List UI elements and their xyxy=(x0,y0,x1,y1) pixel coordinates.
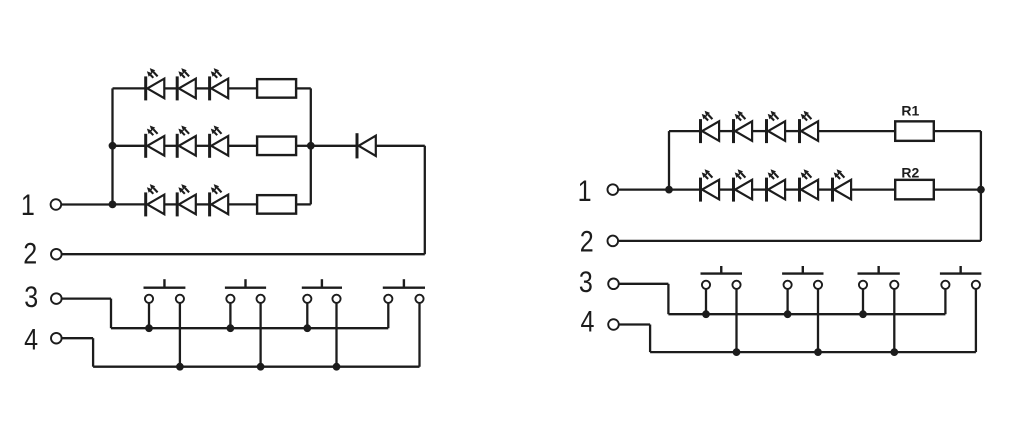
LED (right circuit, row 2, #3) xyxy=(767,169,786,201)
wire: right switch 2 right pin to lower bus xyxy=(817,289,819,352)
push-button switch S1 (right circuit) xyxy=(701,266,743,289)
wire: terminal 4 to corner xyxy=(62,337,94,339)
wire: junction to row 1 first LED xyxy=(669,130,701,132)
svg-text:R1: R1 xyxy=(901,103,919,119)
junction: right switch 1 right pin on lower bus xyxy=(733,348,741,356)
svg-text:1: 1 xyxy=(21,188,35,221)
wire: diode to corner xyxy=(376,145,424,147)
wire: right row 2 LED1 to LED2 xyxy=(719,188,733,190)
wire: row 1 resistor to right bus xyxy=(296,87,311,89)
LED (right circuit, row 1, #3) xyxy=(767,111,786,143)
wire: right row 1 LED3 to LED4 xyxy=(785,130,799,132)
svg-text:4: 4 xyxy=(24,323,38,356)
wire: output node drop to terminal 2 line xyxy=(980,190,982,241)
junction: output node rows 1+2 xyxy=(977,186,985,194)
junction: right switch 3 left pin on upper bus xyxy=(859,310,867,318)
wire: right terminal 3 vertical drop xyxy=(667,284,669,314)
junction: right switch 2 right pin on lower bus xyxy=(814,348,822,356)
resistor (left circuit, row 2) xyxy=(257,137,296,156)
svg-text:4: 4 xyxy=(581,305,595,338)
wire: right switch 3 right pin to lower bus xyxy=(893,289,895,352)
junction: switch 1 right pin on lower bus xyxy=(176,363,184,371)
wire: left bus to row 1 first LED xyxy=(113,87,146,89)
wire: terminal 1 to left bus xyxy=(61,203,112,205)
LED (left circuit, row 1, #1) xyxy=(146,68,165,100)
junction: switch 3 right pin on lower bus xyxy=(333,363,341,371)
wire: row 2 LED1 to LED2 xyxy=(164,145,177,147)
terminal pad 4 (right circuit) xyxy=(608,319,619,330)
wire: left bus to row 3 first LED xyxy=(113,203,146,205)
push-button switch S3 (right circuit) xyxy=(858,266,900,289)
wire: left vertical bus (LED anode bus) xyxy=(111,88,113,204)
wire: row 2 LED2 to LED3 xyxy=(196,145,210,147)
push-button switch S4 (right circuit) xyxy=(940,266,982,289)
wire: upper bus rise to switch 4 left pin xyxy=(387,303,389,328)
LED (right circuit, row 2, #2) xyxy=(734,169,753,201)
resistor (left circuit, row 1) xyxy=(257,79,296,98)
junction: switch 2 left pin on upper bus xyxy=(227,324,235,332)
wire: lower bus rise to switch 4 right pin xyxy=(418,303,420,367)
wire: right switch 1 left pin to upper bus xyxy=(705,289,707,314)
wire: right terminal 3 to corner xyxy=(619,283,669,285)
wire: branch junction rise to row 1 xyxy=(668,131,670,190)
wire: row 1 LED2 to LED3 xyxy=(196,87,210,89)
wire: terminal 2 horizontal line (right circuit) xyxy=(618,240,981,242)
wire: right lower switch bus xyxy=(650,351,976,353)
wire: right switch 2 left pin to upper bus xyxy=(786,289,788,314)
junction: switch 3 left pin on upper bus xyxy=(303,324,311,332)
terminal pad 2 (left circuit) xyxy=(51,249,62,260)
LED (right circuit, row 1, #2) xyxy=(734,111,753,143)
wire: right row 1 LED2 to LED3 xyxy=(752,130,766,132)
wire: row 2 LED3 to resistor xyxy=(228,145,257,147)
LED (right circuit, row 1, #1) xyxy=(701,111,720,143)
svg-text:2: 2 xyxy=(23,237,37,270)
wire: right upper bus rise to switch 4 left pin xyxy=(944,289,946,314)
wire: right terminal 4 vertical drop xyxy=(649,325,651,353)
wire: right switch 1 right pin to lower bus xyxy=(735,289,737,352)
LED (right circuit, row 2, #1) xyxy=(701,169,720,201)
wire: terminal 3 to corner xyxy=(62,297,111,299)
terminal pad 3 (right circuit) xyxy=(608,279,619,290)
junction: right switch 2 left pin on upper bus xyxy=(784,310,792,318)
junction: terminal 1 branch split xyxy=(665,186,673,194)
wire: switch 2 left pin to upper bus xyxy=(229,303,231,328)
svg-text:3: 3 xyxy=(579,265,593,298)
LED (left circuit, row 1, #2) xyxy=(177,68,196,100)
junction: right bus / row 2 xyxy=(307,142,315,150)
wire: row 3 LED1 to LED2 xyxy=(164,203,177,205)
LED (left circuit, row 3, #1) xyxy=(146,184,165,216)
wire: right row 1 LED1 to LED2 xyxy=(719,130,733,132)
diode (left circuit, series protection) xyxy=(357,133,376,158)
wire: terminal 2 horizontal line xyxy=(62,253,425,255)
wire: right terminal 4 to corner xyxy=(619,323,650,325)
terminal pad 3 (left circuit) xyxy=(51,293,62,304)
wire: right row 2 LED3 to LED4 xyxy=(785,188,799,190)
svg-text:1: 1 xyxy=(578,174,592,207)
wire: switch 1 right pin to lower bus xyxy=(179,303,181,367)
wire: right upper switch bus xyxy=(668,313,945,315)
LED (left circuit, row 3, #3) xyxy=(210,184,229,216)
wire: right row 1 LED4 to resistor R1 xyxy=(818,130,895,132)
terminal pad 1 (right circuit) xyxy=(608,184,619,195)
LED (right circuit, row 1, #4) xyxy=(800,111,819,143)
junction: switch 1 left pin on upper bus xyxy=(145,324,153,332)
wire: terminal 4 vertical drop xyxy=(92,338,94,367)
wire: switch 1 left pin to upper bus xyxy=(148,303,150,328)
junction: left bus / row 3 (terminal 1) xyxy=(109,201,117,209)
wire: right row 2 LED4 to LED5 xyxy=(818,188,832,190)
LED (left circuit, row 2, #3) xyxy=(210,126,229,158)
resistor (left circuit, row 3) xyxy=(257,195,296,214)
wire: left bus to row 2 first LED xyxy=(113,145,146,147)
push-button switch S2 (right circuit) xyxy=(782,266,823,289)
wire: right bus to series diode xyxy=(311,145,357,147)
wire: right corner drop row1 to row2 xyxy=(980,131,982,190)
LED (left circuit, row 1, #3) xyxy=(210,68,229,100)
wire: row 1 LED3 to resistor xyxy=(228,87,257,89)
wire: row 3 LED3 to resistor xyxy=(228,203,257,205)
wire: right lower bus rise to switch 4 right pin xyxy=(975,289,977,352)
terminal pad 2 (right circuit) xyxy=(608,236,619,247)
wire: right row 2 LED5 to resistor R2 xyxy=(851,188,895,190)
wire: right vertical bus (cathode bus) xyxy=(310,88,312,204)
terminal pad 1 (left circuit) xyxy=(51,199,62,210)
wire: row 2 resistor to right bus xyxy=(296,145,311,147)
resistor R2 xyxy=(895,180,934,200)
wire: junction to row 2 first LED xyxy=(669,188,701,190)
wire: row 3 resistor to right bus xyxy=(296,203,311,205)
LED (right circuit, row 2, #4) xyxy=(800,169,819,201)
terminal pad 4 (left circuit) xyxy=(51,333,62,344)
svg-text:3: 3 xyxy=(24,280,38,313)
junction: left bus / row 2 xyxy=(109,142,117,150)
push-button switch S1 (left circuit) xyxy=(144,279,186,303)
wire: right row 2 LED2 to LED3 xyxy=(752,188,766,190)
wire: R2 to output node xyxy=(934,188,981,190)
push-button switch S4 (left circuit) xyxy=(383,279,425,303)
wire: terminal 3 vertical drop xyxy=(110,299,112,329)
LED (left circuit, row 3, #2) xyxy=(177,184,196,216)
svg-text:R2: R2 xyxy=(901,165,919,181)
push-button switch S3 (left circuit) xyxy=(302,279,342,303)
wire: switch 2 right pin to lower bus xyxy=(259,303,261,367)
junction: switch 2 right pin on lower bus xyxy=(257,363,265,371)
wire: vertical drop to terminal 2 line xyxy=(424,146,426,254)
junction: right switch 1 left pin on upper bus xyxy=(702,310,710,318)
push-button switch S2 (left circuit) xyxy=(225,279,266,303)
resistor R1 xyxy=(895,121,934,141)
wire: right switch 3 left pin to upper bus xyxy=(862,289,864,314)
LED (right circuit, row 2, #5) xyxy=(833,169,852,201)
wire: row 1 LED1 to LED2 xyxy=(164,87,177,89)
wire: switch 3 right pin to lower bus xyxy=(335,303,337,367)
LED (left circuit, row 2, #1) xyxy=(146,126,165,158)
wire: switch 3 left pin to upper bus xyxy=(306,303,308,328)
LED (left circuit, row 2, #2) xyxy=(177,126,196,158)
wire: row 3 LED2 to LED3 xyxy=(196,203,210,205)
junction: right switch 3 right pin on lower bus xyxy=(890,348,898,356)
wire: terminal 1 to branch junction xyxy=(618,188,669,190)
wire: R1 to right corner xyxy=(934,130,981,132)
wire: row bus of terminal 3 (upper switch bus) xyxy=(111,327,388,329)
svg-text:2: 2 xyxy=(580,225,594,258)
wire: row bus of terminal 4 (lower switch bus) xyxy=(93,366,419,368)
